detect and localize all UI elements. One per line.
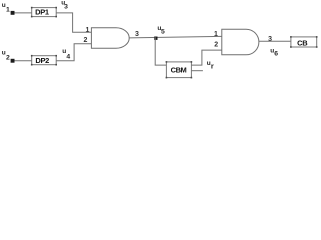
svg-text:1: 1	[85, 27, 89, 34]
wire u2 to DP2	[15, 60, 32, 62]
node u6 label	[270, 48, 278, 58]
svg-text:2: 2	[83, 37, 87, 44]
wire CBM output up to gate U2 input 2	[191, 50, 221, 65]
svg-text:4: 4	[66, 53, 70, 60]
wire gate U1 output to gate U2 input 1	[129, 36, 222, 38]
svg-text:r: r	[211, 62, 214, 71]
node u4 label	[62, 48, 70, 60]
svg-text:5: 5	[161, 29, 165, 36]
svg-text:1: 1	[214, 31, 218, 38]
svg-text:DP1: DP1	[35, 8, 49, 17]
node u1 dot	[11, 11, 15, 15]
node u3 label	[61, 0, 68, 11]
node u1 label	[2, 2, 10, 13]
node u_r label	[207, 60, 214, 71]
svg-text:1: 1	[6, 6, 10, 13]
wire gate U2 output to CB	[259, 40, 291, 42]
svg-text:3: 3	[64, 4, 68, 11]
block DP1	[31, 7, 57, 18]
svg-text:2: 2	[214, 42, 218, 49]
svg-text:3: 3	[268, 36, 272, 43]
block CBM	[166, 61, 193, 78]
block DP2	[31, 55, 57, 66]
AND gate U1	[91, 28, 129, 49]
wire junction down to CBM	[155, 37, 166, 65]
svg-text:CB: CB	[297, 39, 308, 48]
junction node u5 dot	[154, 37, 157, 40]
AND gate U2	[222, 29, 259, 55]
svg-text:DP2: DP2	[35, 56, 49, 65]
node u2 dot	[11, 59, 15, 63]
block CB	[290, 36, 317, 48]
CBM second stub wire	[191, 70, 203, 72]
wire DP1 to gate U1 input 1	[56, 13, 91, 32]
wire u1 to DP1	[15, 12, 32, 14]
svg-text:6: 6	[274, 51, 278, 58]
svg-text:3: 3	[135, 31, 139, 38]
node u2 label	[2, 49, 10, 61]
node u5 label	[157, 25, 165, 36]
svg-text:CBM: CBM	[171, 66, 187, 75]
wire DP2 to gate U1 input 2	[56, 44, 91, 61]
svg-text:2: 2	[6, 54, 10, 61]
